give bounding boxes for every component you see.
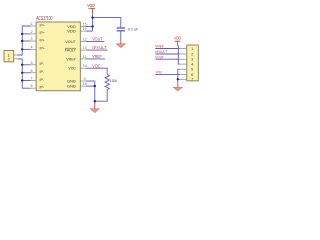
wire VREF to right connector pin1 <box>155 48 179 50</box>
wire IP- branch <box>22 72 30 74</box>
VDD power symbol top <box>87 3 95 15</box>
svg-text:IP+: IP+ <box>40 37 46 42</box>
svg-text:12: 12 <box>83 38 87 42</box>
svg-text:3: 3 <box>31 37 33 41</box>
svg-text:IP-: IP- <box>40 61 45 66</box>
svg-text:IP+: IP+ <box>40 22 46 27</box>
svg-text:nFAULT: nFAULT <box>92 45 107 50</box>
wire IP+ branch <box>22 40 30 42</box>
wire GND vertical <box>94 81 96 105</box>
svg-text:10: 10 <box>83 27 87 31</box>
wire nFAULT to right connector pin2 <box>155 53 179 55</box>
svg-text:VREF: VREF <box>92 54 102 59</box>
left connector stubs <box>14 55 17 59</box>
svg-text:IP-: IP- <box>40 85 45 90</box>
svg-text:IP+: IP+ <box>40 46 46 51</box>
svg-text:5: 5 <box>31 61 33 65</box>
svg-text:0.1 uF: 0.1 uF <box>128 27 139 32</box>
svg-text:VOUT: VOUT <box>92 37 103 42</box>
wire IP+ bus <box>17 26 30 55</box>
svg-text:14: 14 <box>83 64 87 68</box>
wire VDD vertical to pins <box>92 18 94 32</box>
left connector J1 body <box>4 51 14 62</box>
svg-text:VOUT: VOUT <box>65 39 76 44</box>
svg-text:ACS37100: ACS37100 <box>36 16 52 22</box>
wire VDD down to right connector pin4 <box>178 46 180 65</box>
wire IP- branch <box>22 80 30 82</box>
IC pin names right <box>65 24 77 89</box>
svg-text:1: 1 <box>191 46 193 51</box>
svg-text:16: 16 <box>83 82 87 86</box>
svg-text:VREF: VREF <box>66 56 76 61</box>
capacitor C1 plates <box>117 28 125 31</box>
wire resistor bottom to gnd junction <box>95 90 107 102</box>
wire VOC to resistor <box>86 68 107 74</box>
svg-text:VOC: VOC <box>92 63 100 68</box>
wire nFAULT stub <box>86 49 108 51</box>
wires GND pins <box>86 80 95 82</box>
svg-text:15: 15 <box>83 23 87 27</box>
svg-text:IP+: IP+ <box>40 30 46 35</box>
svg-text:6: 6 <box>31 69 33 73</box>
svg-text:VOC: VOC <box>156 70 163 75</box>
wire IP+ branch <box>22 33 30 35</box>
svg-text:4: 4 <box>31 45 33 49</box>
svg-text:VDD: VDD <box>174 36 181 41</box>
svg-text:VOUT: VOUT <box>155 54 164 59</box>
svg-text:VDD: VDD <box>67 29 76 34</box>
wire IP+ branch <box>22 48 30 50</box>
svg-text:2: 2 <box>31 30 33 34</box>
svg-text:9: 9 <box>84 77 86 81</box>
svg-text:2: 2 <box>8 57 10 61</box>
svg-text:IP-: IP- <box>40 77 45 82</box>
right connector J2 body <box>187 45 199 82</box>
right connector stubs <box>180 49 187 80</box>
wire VDD pin <box>86 30 93 32</box>
capacitor bottom lead <box>120 31 122 40</box>
right pin numbers <box>83 23 87 87</box>
svg-text:13: 13 <box>83 46 87 50</box>
wire VDD pin <box>86 26 93 28</box>
svg-text:130k: 130k <box>110 78 117 83</box>
wire IP- bus <box>17 59 30 88</box>
wire VOUT stub <box>86 41 105 43</box>
FAULT overline <box>65 47 76 49</box>
svg-text:GND: GND <box>67 84 76 89</box>
svg-text:7: 7 <box>31 77 33 81</box>
IC U1 body ACS37100 <box>36 16 80 91</box>
VDD power symbol right <box>174 36 181 46</box>
IC pin names IP+ <box>40 22 46 50</box>
wire VOUT to right connector pin3 <box>155 58 179 60</box>
wire GND right pins 5,7 vertical <box>178 69 180 84</box>
svg-text:VREF: VREF <box>155 44 164 49</box>
svg-text:VOC: VOC <box>68 66 76 71</box>
wire VOC to right connector pin6 <box>155 73 179 75</box>
wire IP- branch <box>22 64 30 66</box>
svg-text:1: 1 <box>31 22 33 26</box>
wire VDD rail to cap <box>93 15 121 28</box>
svg-text:IP-: IP- <box>40 69 45 74</box>
resistor R1 130k zigzag <box>105 75 109 90</box>
svg-text:8: 8 <box>31 84 33 88</box>
ground symbol below GND net <box>90 105 100 113</box>
left pin stubs 1-8 <box>31 26 36 88</box>
svg-text:11: 11 <box>83 55 87 59</box>
left pin numbers 1-8 <box>31 22 33 88</box>
ground symbol under capacitor <box>116 41 126 48</box>
right pin stubs <box>80 27 86 87</box>
IC pin names IP- <box>40 61 45 89</box>
svg-text:VDD: VDD <box>87 3 95 8</box>
svg-text:7: 7 <box>191 77 193 82</box>
ground symbol under right connector <box>173 84 183 91</box>
wire VREF stub <box>86 58 105 60</box>
